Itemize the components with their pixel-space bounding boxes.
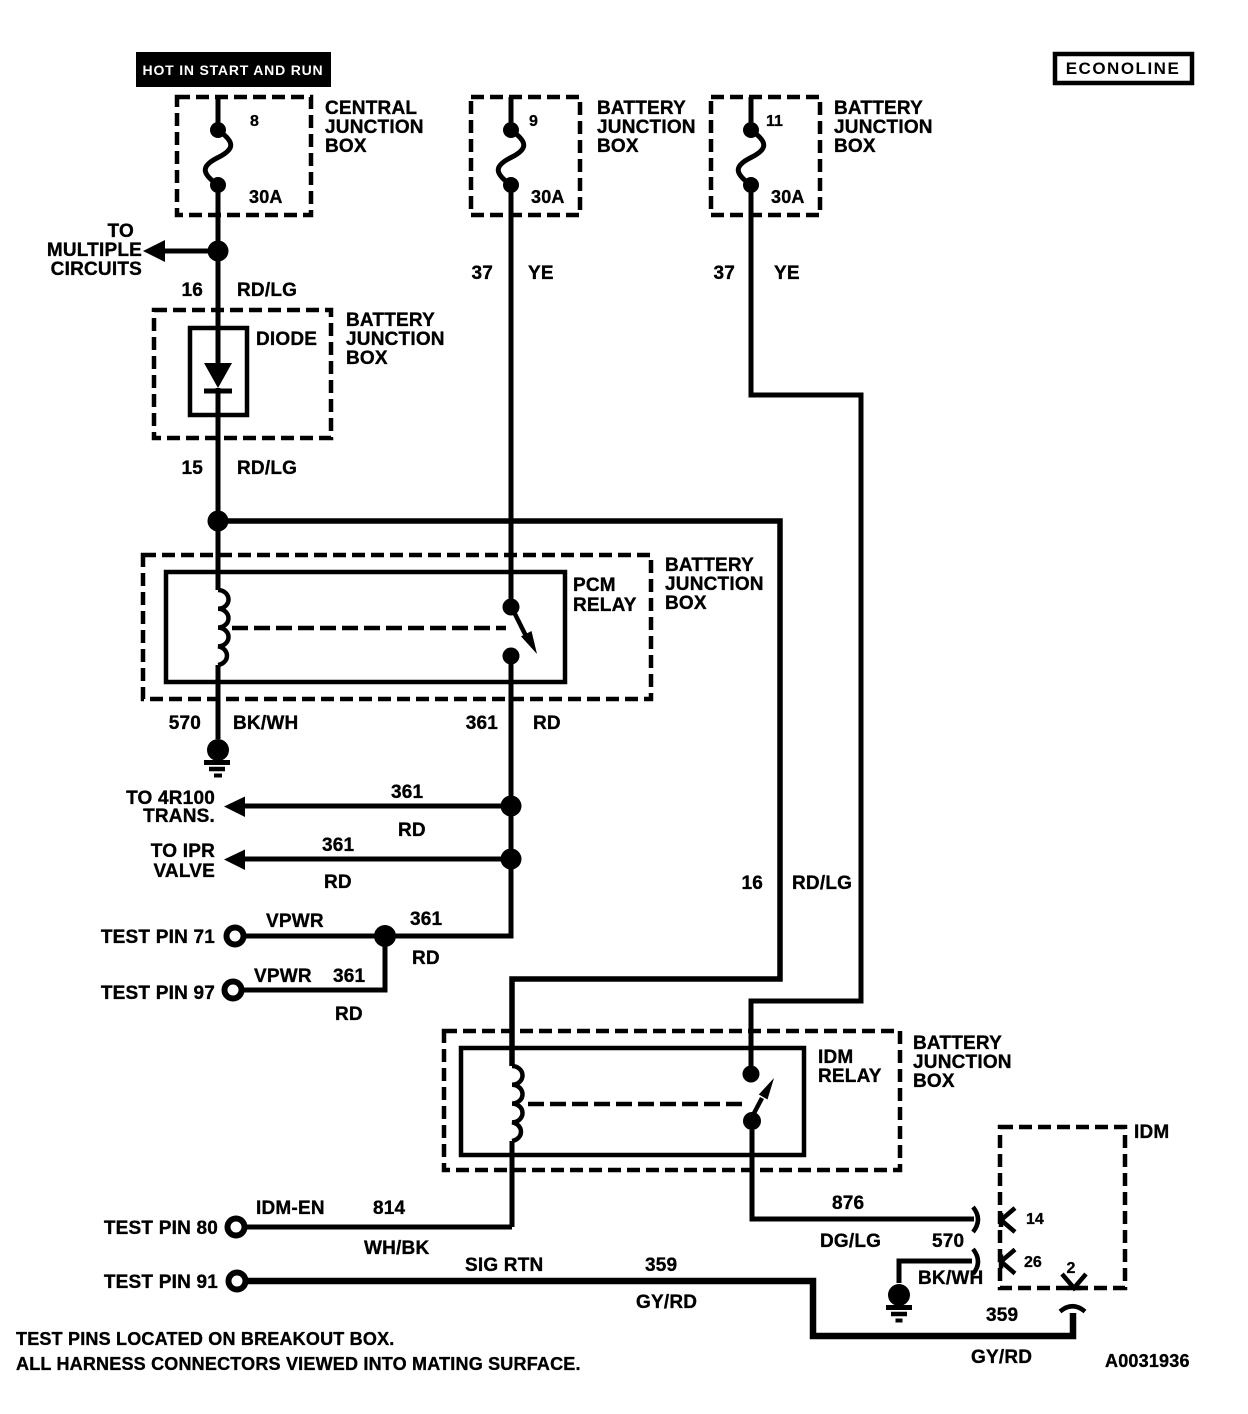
title box ECONOLINE bbox=[1055, 54, 1192, 83]
wire IDM switch output to pin 14 bbox=[752, 1130, 974, 1219]
IDM relay K2 bbox=[461, 1047, 882, 1155]
ground G2 bbox=[886, 1284, 912, 1321]
test pin 71 terminal bbox=[101, 909, 443, 969]
svg-text:YE: YE bbox=[528, 263, 554, 284]
svg-text:359: 359 bbox=[645, 1255, 677, 1276]
svg-text:9: 9 bbox=[529, 113, 538, 130]
node branch to IPR valve bbox=[501, 849, 522, 870]
svg-text:IDM: IDM bbox=[818, 1047, 853, 1068]
wire PCM switch output down and left to test pin 71 bbox=[245, 656, 511, 936]
svg-text:37: 37 bbox=[713, 263, 735, 284]
test pin 91 terminal bbox=[104, 1272, 246, 1293]
svg-text:GY/RD: GY/RD bbox=[971, 1347, 1032, 1368]
svg-text:VALVE: VALVE bbox=[153, 861, 215, 882]
wire branch to 4R100 trans with arrow bbox=[126, 782, 511, 841]
wire label 15 RD/LG bbox=[181, 458, 297, 479]
svg-text:37: 37 bbox=[471, 263, 493, 284]
svg-text:570: 570 bbox=[932, 1231, 964, 1252]
node VPWR junction bbox=[374, 925, 396, 947]
svg-text:SIG RTN: SIG RTN bbox=[465, 1255, 543, 1276]
svg-text:16: 16 bbox=[181, 280, 203, 301]
wire fuse9 down to PCM relay switch bbox=[509, 185, 514, 599]
IDM relay actuator dashed link bbox=[528, 1102, 746, 1107]
svg-text:RD: RD bbox=[398, 820, 426, 841]
svg-text:16: 16 bbox=[741, 873, 763, 894]
svg-text:BOX: BOX bbox=[597, 136, 639, 157]
pin 26 terminal bbox=[1001, 1250, 1042, 1274]
wire label 361 RD (below PCM relay) bbox=[466, 713, 561, 734]
wire fuse11 jog down to IDM relay switch bbox=[751, 185, 861, 1066]
svg-text:BATTERY: BATTERY bbox=[346, 310, 435, 331]
PCM relay coil bbox=[218, 521, 229, 739]
svg-text:DIODE: DIODE bbox=[256, 329, 317, 350]
svg-text:RD/LG: RD/LG bbox=[237, 458, 297, 479]
svg-text:JUNCTION: JUNCTION bbox=[346, 329, 445, 350]
svg-text:570: 570 bbox=[169, 713, 201, 734]
wire label 37 YE (right) bbox=[713, 263, 799, 284]
svg-text:CENTRAL: CENTRAL bbox=[325, 98, 417, 119]
svg-text:JUNCTION: JUNCTION bbox=[913, 1052, 1012, 1073]
svg-text:BOX: BOX bbox=[665, 593, 707, 614]
svg-text:BOX: BOX bbox=[834, 136, 876, 157]
diode D1 bbox=[190, 328, 317, 415]
wire label 37 YE (middle) bbox=[471, 263, 553, 284]
svg-text:GY/RD: GY/RD bbox=[636, 1292, 697, 1313]
svg-text:BATTERY: BATTERY bbox=[665, 555, 754, 576]
IDM relay switch contacts bbox=[743, 1066, 775, 1131]
svg-text:30A: 30A bbox=[771, 187, 805, 207]
svg-text:26: 26 bbox=[1024, 1254, 1042, 1271]
banner HOT IN START AND RUN bbox=[136, 52, 331, 87]
svg-text:15: 15 bbox=[181, 458, 203, 479]
svg-text:BOX: BOX bbox=[913, 1071, 955, 1092]
svg-text:JUNCTION: JUNCTION bbox=[597, 117, 696, 138]
svg-text:RELAY: RELAY bbox=[818, 1066, 882, 1087]
svg-text:BK/WH: BK/WH bbox=[233, 713, 298, 734]
svg-text:361: 361 bbox=[322, 835, 355, 856]
svg-text:TEST PINS LOCATED ON BREAKOUT: TEST PINS LOCATED ON BREAKOUT BOX. bbox=[16, 1329, 394, 1349]
svg-text:YE: YE bbox=[774, 263, 800, 284]
svg-text:TEST PIN 91: TEST PIN 91 bbox=[104, 1272, 218, 1293]
svg-text:359: 359 bbox=[986, 1305, 1018, 1326]
svg-text:TRANS.: TRANS. bbox=[143, 806, 215, 827]
svg-text:DG/LG: DG/LG bbox=[820, 1231, 881, 1252]
svg-text:30A: 30A bbox=[531, 187, 565, 207]
svg-text:IDM: IDM bbox=[1134, 1122, 1169, 1143]
PCM relay actuator dashed link bbox=[232, 626, 506, 631]
svg-text:JUNCTION: JUNCTION bbox=[325, 117, 424, 138]
node junction to multiple circuits bbox=[208, 241, 229, 262]
connector half (male) at pin 14 bbox=[973, 1207, 978, 1232]
svg-text:TEST PIN 97: TEST PIN 97 bbox=[101, 983, 215, 1004]
svg-text:14: 14 bbox=[1026, 1211, 1044, 1228]
svg-text:30A: 30A bbox=[249, 187, 283, 207]
svg-text:TEST PIN 71: TEST PIN 71 bbox=[101, 927, 215, 948]
battery junction box (PCM relay enclosure) bbox=[143, 555, 764, 699]
svg-text:814: 814 bbox=[373, 1198, 406, 1219]
wire label 570 BK/WH (right) bbox=[918, 1231, 983, 1289]
svg-text:TO IPR: TO IPR bbox=[151, 841, 215, 862]
IDM module box bbox=[1000, 1122, 1169, 1288]
svg-text:PCM: PCM bbox=[573, 575, 616, 596]
wire label 876 DG/LG bbox=[820, 1193, 881, 1252]
svg-text:2: 2 bbox=[1067, 1260, 1076, 1277]
svg-text:JUNCTION: JUNCTION bbox=[665, 574, 764, 595]
svg-text:RD: RD bbox=[533, 713, 561, 734]
wire label IDM-EN 814 WH/BK bbox=[256, 1198, 429, 1259]
test pin 80 terminal bbox=[104, 1218, 245, 1239]
svg-text:JUNCTION: JUNCTION bbox=[834, 117, 933, 138]
svg-text:VPWR: VPWR bbox=[266, 911, 324, 932]
fuse 11 30A bbox=[738, 97, 804, 207]
wire label 16 RD/LG (right) bbox=[741, 873, 852, 894]
svg-text:ALL HARNESS CONNECTORS VIEWED: ALL HARNESS CONNECTORS VIEWED INTO MATIN… bbox=[16, 1354, 581, 1374]
battery junction box (fuse 9 enclosure) bbox=[471, 97, 696, 215]
node main junction above PCM relay bbox=[208, 511, 229, 532]
pin 14 terminal bbox=[1001, 1208, 1044, 1232]
svg-text:VPWR: VPWR bbox=[254, 966, 312, 987]
svg-text:RD: RD bbox=[335, 1004, 363, 1025]
svg-text:RD: RD bbox=[324, 872, 352, 893]
svg-text:8: 8 bbox=[250, 113, 259, 130]
wire thick bus 16 RD/LG to IDM relay coil bbox=[218, 521, 780, 1066]
PCM relay switch contacts bbox=[503, 599, 538, 665]
svg-text:361: 361 bbox=[391, 782, 424, 803]
test pin 97 terminal bbox=[101, 966, 366, 1025]
wire test pin 97 branch bbox=[243, 936, 385, 990]
svg-text:BATTERY: BATTERY bbox=[913, 1033, 1002, 1054]
svg-text:361: 361 bbox=[410, 909, 443, 930]
svg-text:11: 11 bbox=[766, 113, 783, 130]
svg-text:IDM-EN: IDM-EN bbox=[256, 1198, 325, 1219]
IDM relay coil bbox=[512, 1066, 523, 1227]
svg-text:TO: TO bbox=[108, 221, 134, 242]
connector half (male) at pin 26 bbox=[973, 1249, 978, 1274]
svg-text:RD/LG: RD/LG bbox=[237, 280, 297, 301]
svg-text:876: 876 bbox=[832, 1193, 864, 1214]
svg-text:ECONOLINE: ECONOLINE bbox=[1066, 59, 1181, 78]
svg-text:BOX: BOX bbox=[325, 136, 367, 157]
svg-text:RD/LG: RD/LG bbox=[792, 873, 852, 894]
node branch to 4R100 bbox=[501, 796, 522, 817]
svg-text:WH/BK: WH/BK bbox=[364, 1238, 429, 1259]
wire label 359 GY/RD (right) bbox=[971, 1305, 1032, 1368]
wire label 570 BK/WH bbox=[169, 713, 299, 734]
svg-text:TEST PIN 80: TEST PIN 80 bbox=[104, 1218, 218, 1239]
battery junction box (diode enclosure) bbox=[154, 310, 445, 438]
svg-text:A0031936: A0031936 bbox=[1105, 1351, 1190, 1371]
central junction box (fuse 8 enclosure) bbox=[177, 97, 424, 215]
fuse 9 30A bbox=[498, 97, 564, 207]
wire diode to junction node bbox=[216, 388, 221, 521]
battery junction box (IDM relay enclosure) bbox=[444, 1031, 1012, 1170]
svg-text:MULTIPLE: MULTIPLE bbox=[47, 240, 142, 261]
wire branch to multiple circuits with arrow bbox=[47, 221, 218, 280]
connector half (male) at pin 2 bbox=[1060, 1306, 1085, 1311]
svg-text:361: 361 bbox=[333, 966, 366, 987]
note text bottom left bbox=[16, 1329, 581, 1374]
wire test pin 80 to IDM relay coil bbox=[246, 1225, 512, 1230]
svg-text:BATTERY: BATTERY bbox=[834, 98, 923, 119]
wire fuse8 output down to diode bbox=[216, 185, 221, 365]
svg-text:RD: RD bbox=[412, 948, 440, 969]
ground G1 bbox=[204, 739, 230, 776]
svg-text:CIRCUITS: CIRCUITS bbox=[51, 259, 142, 280]
fuse 8 30A bbox=[205, 97, 282, 207]
PCM relay K1 bbox=[166, 572, 637, 682]
wire label 16 RD/LG (upper) bbox=[181, 280, 297, 301]
pin 2 terminal bbox=[1062, 1260, 1086, 1288]
wire pin 26 ground branch bbox=[899, 1261, 972, 1283]
svg-text:RELAY: RELAY bbox=[573, 595, 637, 616]
svg-text:361: 361 bbox=[466, 713, 499, 734]
svg-text:HOT IN START AND RUN: HOT IN START AND RUN bbox=[143, 62, 324, 78]
wire test pin 91 to IDM pin 2 bbox=[247, 1281, 1073, 1336]
wire branch to IPR valve with arrow bbox=[151, 835, 511, 893]
svg-text:BOX: BOX bbox=[346, 348, 388, 369]
svg-text:BATTERY: BATTERY bbox=[597, 98, 686, 119]
battery junction box (fuse 11 enclosure) bbox=[711, 97, 933, 215]
wire label SIG RTN 359 GY/RD bbox=[465, 1255, 697, 1313]
